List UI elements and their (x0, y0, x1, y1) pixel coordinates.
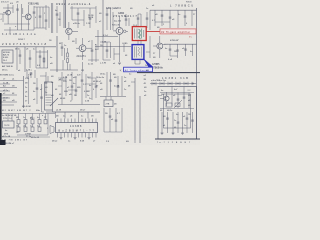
label left of blue note (120, 70, 122, 72)
module interior extra (158, 90, 194, 133)
wire column x17 (15, 4, 19, 30)
svg-text:4u 2B: 4u 2B (114, 86, 120, 88)
wire x147 column (146, 12, 149, 28)
wire mid horizontals x95-131 (95, 30, 131, 50)
svg-text:4u: 4u (81, 115, 83, 117)
wire center verticals y72-104 (58, 72, 100, 105)
label 4M401M (22, 106, 31, 108)
svg-text:4 B 2a 8: 4 B 2a 8 (1, 2, 9, 4)
highlight box blue (EC transformer) (132, 45, 144, 60)
wire diagonal bottom-left (50, 98, 58, 106)
svg-text:4B a2: 4B a2 (52, 140, 58, 142)
labels below ic (52, 140, 96, 142)
svg-text:4 2u1: 4 2u1 (103, 35, 109, 37)
module inner wires (160, 87, 194, 109)
wire top-left stubs (0, 4, 13, 22)
svg-text:4a 2B 8M a7 4B: 4a 2B 8M a7 4B (2, 115, 17, 117)
wire heavy horizontal y139 (155, 138, 200, 140)
wire x100-112 mid (100, 36, 111, 64)
wire y70 left (50, 42, 78, 70)
wire x100-126 verticals (100, 72, 126, 97)
labels above ic (56, 110, 94, 118)
connector J3 box (3, 121, 15, 128)
wire horizontal y112 center (46, 111, 100, 113)
connector J1 block (2, 50, 13, 63)
wire heavy horizontal y72 (137, 72, 200, 74)
vertical double bus x64 (64, 0, 65, 28)
labels center tiny column (63, 77, 95, 97)
wire symbol row y83 (150, 80, 196, 85)
callout note red (160, 29, 196, 34)
component grid bottom-left (17, 114, 48, 136)
label column x25-33 (25, 76, 38, 104)
wire x150 mid vertical (146, 36, 150, 58)
labels mid extra (15, 40, 149, 72)
label bottom row right (157, 142, 191, 144)
transistor Q4 (113, 16, 128, 42)
connector left of ic (47, 126, 54, 134)
transistor Q1 (3, 10, 11, 24)
label bottom center (106, 141, 129, 143)
scan noise overlay (0, 0, 200, 145)
labels right column extra (100, 74, 147, 106)
labels top extra (55, 8, 196, 29)
wire vertical x41.5 (40, 84, 44, 112)
label row y74 left (0, 75, 32, 77)
svg-text:48 a7: 48 a7 (96, 81, 102, 83)
connector list left labels (0, 79, 15, 106)
label 21C271 (77, 56, 87, 58)
label right mid extra (153, 48, 192, 59)
wire x76-99 mid (76, 38, 99, 72)
wire module diagonal (174, 100, 182, 108)
resistor pair R60x (67, 48, 69, 70)
svg-text:aB 2u 4B: aB 2u 4B (2, 136, 11, 138)
wire x138-141 above red box (137, 14, 141, 27)
svg-text:2B a7: 2B a7 (80, 110, 86, 112)
wire vertical x135 (131, 78, 135, 140)
wire verticals x100-113 (103, 0, 113, 36)
labels bottom-left extra (5, 117, 47, 139)
wire corner double x55 (53, 110, 101, 118)
wire blue box leads (135, 59, 140, 64)
wire center verticals bottom (104, 108, 122, 132)
svg-text:4u: 4u (25, 96, 27, 98)
label rows y109-111 (0, 110, 41, 112)
callout leader red (146, 31, 160, 33)
wire horizontal y113 left (0, 113, 55, 115)
labels band y75-90 center-right (96, 77, 131, 88)
module box outline (158, 87, 197, 140)
callout note blue (124, 67, 153, 72)
connector J2 box (104, 97, 113, 107)
transistor Q3 (66, 22, 78, 40)
module bottom verticals (161, 112, 189, 135)
wire region x70-100 top (70, 6, 96, 28)
svg-text:a4 48: a4 48 (56, 110, 62, 112)
wire x126-131 (125, 14, 129, 26)
transistor Q2 (22, 5, 31, 30)
transistor Q5 (76, 38, 92, 60)
title text row top (10, 2, 91, 6)
wire x114-128 mid (114, 42, 128, 65)
left edge black bar (0, 93, 6, 145)
wire column x57-60 (56, 6, 60, 33)
wire columns x34-49 (33, 5, 49, 30)
vertical bus x57 mid (56, 36, 58, 72)
module inner labels (174, 89, 191, 107)
ic U1 body (56, 123, 98, 133)
labels center band extra (51, 75, 96, 103)
wire bottom-left extra (2, 114, 50, 138)
wire top right bus (150, 10, 197, 28)
transformer T1 tall box (45, 76, 53, 110)
label top-left corner row (1, 2, 19, 4)
wire x150 drop (149, 10, 151, 30)
svg-text:2.4B: 2.4B (102, 42, 107, 44)
callout leader blue (144, 59, 153, 67)
wire marks center band2 (58, 78, 96, 100)
connector stubs left (0, 79, 17, 103)
transistor Q6 (153, 36, 168, 58)
svg-text:27 4a: 27 4a (26, 136, 32, 138)
svg-text:2u: 2u (89, 98, 91, 100)
highlight box red (flyback transformer) (132, 25, 146, 41)
svg-text:2B 4a 8u: 2B 4a 8u (96, 77, 104, 79)
wire grid left-top (4, 24, 34, 34)
label 17HM (4, 133, 31, 135)
label bottom rows left (2, 140, 28, 146)
label W2087 (18, 39, 26, 41)
wire verticals x135-140 bottom (135, 96, 140, 143)
label row x100 top (106, 7, 138, 27)
wire vertical x46 mid (40, 72, 47, 96)
label L788BCU (152, 2, 195, 8)
label row y34 left (2, 34, 36, 36)
label 1C3B1 31B (162, 77, 190, 80)
wire left mid verticals (17, 47, 31, 72)
wire right mid bus (164, 44, 197, 61)
wire horizontal y46 left (0, 46, 56, 48)
label 23C3749-Y51-Z (2, 42, 48, 46)
wire mid grid x36-48 (36, 47, 48, 68)
ic U1 bottom pins (58, 133, 97, 140)
label small red B7a (189, 36, 192, 38)
wire vertical x23 (17, 76, 24, 108)
labels right col x144 (144, 75, 147, 85)
label P78.1 (3, 115, 44, 120)
wire column x22 pair (22, 4, 23, 30)
label 4768-68 (170, 40, 179, 42)
wire right edge vertical (196, 8, 198, 139)
wire stubs y70-78 left (26, 69, 35, 78)
wire red box leads (138, 41, 141, 45)
wire center band extra (58, 74, 97, 98)
transistor Q7 (160, 92, 169, 106)
label rows bottom-left extra2 (2, 115, 32, 138)
label G78B5 (152, 63, 164, 70)
ic U1 top pins (58, 112, 97, 123)
vertical double line x52 (52, 3, 53, 33)
label AW7608 (2, 65, 14, 72)
